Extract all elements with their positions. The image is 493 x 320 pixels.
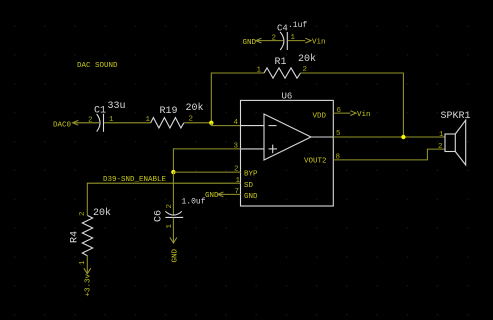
svg-text:GND: GND <box>244 193 258 201</box>
capacitor C1 <box>97 114 104 132</box>
svg-text:1: 1 <box>439 131 444 139</box>
svg-text:6: 6 <box>337 107 342 115</box>
svg-text:2: 2 <box>79 211 87 216</box>
svg-text:1.0uf: 1.0uf <box>182 198 206 207</box>
svg-text:C4: C4 <box>277 24 288 34</box>
svg-text:C6: C6 <box>154 210 165 222</box>
svg-text:2: 2 <box>272 35 277 43</box>
svg-text:.1uf: .1uf <box>288 21 307 30</box>
ground GND (at U6 pin 7) <box>205 192 223 200</box>
svg-text:2: 2 <box>88 117 93 125</box>
wire node A to U6 pin 4 <box>211 123 240 126</box>
wire node A to R1 pin 1 <box>211 73 264 123</box>
svg-text:DAC0: DAC0 <box>53 122 72 130</box>
svg-text:DAC SOUND: DAC SOUND <box>77 62 118 70</box>
svg-text:VDD: VDD <box>313 113 327 121</box>
svg-text:U6: U6 <box>282 92 293 102</box>
svg-text:1: 1 <box>236 177 241 185</box>
off-page arrow DAC0 <box>73 120 79 125</box>
wire R4 pin 1 to +3.3v <box>86 256 88 274</box>
wire DAC0 to C1 pin 2 <box>73 122 99 124</box>
svg-text:4: 4 <box>234 119 239 127</box>
svg-text:SD: SD <box>244 182 254 190</box>
svg-text:GND: GND <box>172 248 180 262</box>
wire R1 pin 2 to node B <box>301 73 404 137</box>
svg-text:GND: GND <box>243 39 257 47</box>
svg-text:R1: R1 <box>275 57 287 68</box>
svg-text:20k: 20k <box>186 102 204 114</box>
svg-text:Vin: Vin <box>312 39 326 47</box>
svg-text:1: 1 <box>257 67 262 75</box>
svg-text:33u: 33u <box>108 101 126 112</box>
capacitor C4 <box>280 32 287 50</box>
wire U6 pin 5 to SPKR1 pin 1 <box>333 136 445 138</box>
power Vin (at U6 pin 6) <box>350 111 370 119</box>
wire node C to U6 pin 2 <box>173 171 240 173</box>
svg-text:VOUT2: VOUT2 <box>304 158 327 166</box>
power Vin (at C4 pin 1) <box>305 38 325 46</box>
svg-text:20k: 20k <box>93 207 111 219</box>
svg-text:Vin: Vin <box>357 111 371 119</box>
wire GND arrow to C4 pin 2 <box>256 40 283 42</box>
power +3.3v (at R4 pin 1) <box>84 268 93 296</box>
junction node B <box>401 135 405 139</box>
svg-text:R4: R4 <box>70 231 81 243</box>
svg-text:2: 2 <box>166 204 174 209</box>
svg-text:1: 1 <box>79 260 87 265</box>
svg-text:C1: C1 <box>94 106 106 117</box>
wire C1 pin 1 to R19 pin 1 <box>104 122 151 124</box>
wire D39-SND_ENABLE to U6 pin 1 <box>87 183 240 215</box>
op-amp U6 <box>241 100 334 206</box>
svg-text:GND: GND <box>205 192 219 200</box>
svg-text:1: 1 <box>166 224 174 229</box>
svg-text:1: 1 <box>146 116 151 124</box>
resistor R19 <box>151 118 184 128</box>
svg-text:2: 2 <box>438 143 443 151</box>
ground GND (at C6 pin 1) <box>170 237 180 262</box>
ground GND (at C4 pin 2) <box>243 38 262 47</box>
svg-text:20k: 20k <box>298 53 316 65</box>
svg-text:+3.3v: +3.3v <box>85 273 93 296</box>
junction node C <box>171 170 175 174</box>
wire GND arrow to U6 pin 7 <box>218 193 241 195</box>
wire R19 pin 2 to node A <box>184 122 212 124</box>
svg-text:BYP: BYP <box>244 171 258 179</box>
resistor R4 <box>82 216 92 256</box>
wire node C to C6 pin 2 (crosses SD wire, no junction) <box>172 172 174 215</box>
junction node A <box>209 121 213 125</box>
svg-text:R19: R19 <box>160 106 178 117</box>
wire C4 pin 1 to Vin arrow <box>288 40 305 42</box>
speaker SPKR1 <box>445 120 466 165</box>
wire U6 pin 6 to Vin arrow <box>333 112 350 114</box>
wire U6 pin 8 to SPKR1 pin 2 <box>333 149 445 160</box>
wire C6 pin 1 to GND <box>172 217 174 243</box>
resistor R1 <box>264 68 301 78</box>
capacitor C6 <box>165 211 183 217</box>
wire U6 pin 3 to node C <box>173 149 240 172</box>
